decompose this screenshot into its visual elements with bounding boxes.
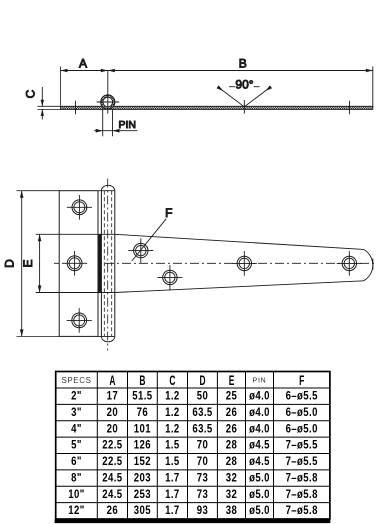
strap bottom edge xyxy=(115,281,364,293)
svg-text:26: 26 xyxy=(107,504,118,517)
svg-text:ø4.0: ø4.0 xyxy=(249,390,270,403)
row 3 inch xyxy=(71,406,318,419)
svg-text:12": 12" xyxy=(68,504,84,517)
column line SPECS/A xyxy=(96,372,98,520)
column line A/B xyxy=(127,372,129,520)
barrel top cap xyxy=(101,185,114,190)
svg-text:A: A xyxy=(79,57,87,71)
svg-text:ø4.0: ø4.0 xyxy=(249,406,270,419)
horizontal centerline xyxy=(54,262,377,264)
row 5 inch xyxy=(71,439,318,452)
row line 2 xyxy=(56,420,330,422)
hole P1 (plate top) xyxy=(67,195,92,220)
svg-text:22.5: 22.5 xyxy=(102,439,122,452)
row 4 inch xyxy=(71,422,318,435)
row 10 inch xyxy=(68,488,318,501)
svg-text:70: 70 xyxy=(197,455,208,468)
svg-text:101: 101 xyxy=(134,422,151,435)
svg-text:93: 93 xyxy=(197,504,208,517)
hole S3 (strap center) xyxy=(232,251,257,276)
svg-text:7–ø5.8: 7–ø5.8 xyxy=(286,504,318,517)
dimension B line with arrows xyxy=(108,69,373,73)
svg-text:F: F xyxy=(165,206,172,220)
column line B/C xyxy=(156,372,158,520)
svg-text:90°: 90° xyxy=(235,77,253,91)
row 8 inch xyxy=(71,472,318,485)
pin inner circle xyxy=(103,97,113,107)
dimension D line with arrows xyxy=(20,191,24,337)
svg-text:63.5: 63.5 xyxy=(192,422,212,435)
barrel bottom cap xyxy=(101,336,114,341)
svg-text:PIN: PIN xyxy=(252,378,266,385)
hole center tick (left leaf, side view) xyxy=(75,101,77,115)
dimension C xyxy=(41,87,44,120)
svg-text:ø5.0: ø5.0 xyxy=(249,472,270,485)
svg-text:ø4.5: ø4.5 xyxy=(249,455,270,468)
row line 1 xyxy=(56,403,330,405)
strap tip center tick xyxy=(372,259,374,270)
svg-text:76: 76 xyxy=(137,406,148,419)
knuckle bottom line / E extension xyxy=(36,292,115,294)
svg-text:ø5.0: ø5.0 xyxy=(249,488,270,501)
svg-text:152: 152 xyxy=(134,455,151,468)
svg-text:5": 5" xyxy=(71,439,82,452)
svg-text:D: D xyxy=(199,374,205,389)
svg-text:24.5: 24.5 xyxy=(102,472,122,485)
svg-text:26: 26 xyxy=(226,406,237,419)
pin centerline vertical xyxy=(107,71,109,114)
svg-text:2": 2" xyxy=(71,390,82,403)
svg-text:50: 50 xyxy=(197,390,208,403)
svg-text:22.5: 22.5 xyxy=(102,455,122,468)
svg-text:F: F xyxy=(299,374,304,389)
svg-text:6": 6" xyxy=(71,455,82,468)
svg-text:1.2: 1.2 xyxy=(165,406,180,419)
table bottom heavy bar xyxy=(55,519,331,523)
row line header xyxy=(56,387,330,389)
svg-text:70: 70 xyxy=(197,439,208,452)
row line 3 xyxy=(56,436,330,438)
svg-text:28: 28 xyxy=(226,455,237,468)
row line 6 xyxy=(56,485,330,487)
svg-text:6–ø5.5: 6–ø5.5 xyxy=(286,390,318,403)
svg-text:ø4.0: ø4.0 xyxy=(249,422,270,435)
svg-text:73: 73 xyxy=(197,472,208,485)
row line 4 xyxy=(56,453,330,455)
svg-text:38: 38 xyxy=(226,504,237,517)
barrel sides xyxy=(100,191,102,337)
column line D/E xyxy=(216,372,218,520)
leaf strip (hatched cross-section) xyxy=(61,106,373,109)
PIN dimension line with arrows xyxy=(94,129,137,133)
svg-text:1.5: 1.5 xyxy=(165,455,180,468)
pin barrel outer circle xyxy=(101,95,115,109)
column line C/D xyxy=(187,372,189,520)
row line 5 xyxy=(56,469,330,471)
hole center tick (strap end, side view) xyxy=(349,101,351,115)
row 2 inch xyxy=(71,390,318,403)
90 degree angle annotation xyxy=(217,85,273,106)
svg-text:253: 253 xyxy=(134,488,151,501)
svg-text:20: 20 xyxy=(107,422,118,435)
svg-text:ø5.0: ø5.0 xyxy=(249,504,270,517)
column line PIN/F xyxy=(273,372,275,520)
label F leader line xyxy=(132,219,166,261)
svg-text:24.5: 24.5 xyxy=(102,488,122,501)
svg-text:7–ø5.8: 7–ø5.8 xyxy=(286,472,318,485)
svg-text:63.5: 63.5 xyxy=(192,406,212,419)
row 12 inch xyxy=(68,504,318,517)
hole P3 (plate bottom) xyxy=(67,308,92,333)
svg-text:7–ø5.8: 7–ø5.8 xyxy=(286,488,318,501)
dimension A line with arrows xyxy=(61,69,108,73)
pin crosshair horizontal xyxy=(97,101,120,103)
svg-text:1.7: 1.7 xyxy=(165,504,180,517)
svg-text:SPECS: SPECS xyxy=(61,376,91,385)
hole P2 (plate middle) xyxy=(62,251,87,276)
svg-text:8": 8" xyxy=(71,472,82,485)
plate top edge across barrel xyxy=(98,190,115,192)
svg-text:4": 4" xyxy=(71,422,82,435)
knuckle top line / E extension xyxy=(36,233,115,235)
svg-text:D: D xyxy=(3,259,17,268)
svg-text:1.7: 1.7 xyxy=(165,488,180,501)
svg-text:28: 28 xyxy=(226,439,237,452)
svg-text:203: 203 xyxy=(134,472,151,485)
svg-text:1.2: 1.2 xyxy=(165,422,180,435)
svg-text:A: A xyxy=(109,374,116,389)
svg-text:73: 73 xyxy=(197,488,208,501)
svg-text:B: B xyxy=(139,374,145,389)
svg-text:ø4.5: ø4.5 xyxy=(249,439,270,452)
svg-text:305: 305 xyxy=(134,504,151,517)
svg-text:3": 3" xyxy=(71,406,82,419)
strap rounded tip xyxy=(364,249,373,280)
svg-text:C: C xyxy=(24,89,38,98)
svg-text:E: E xyxy=(229,374,235,389)
svg-text:10": 10" xyxy=(68,488,84,501)
C extension lines xyxy=(38,106,61,109)
dimension B right extension line xyxy=(372,67,374,108)
hole S2 (strap lower) xyxy=(157,265,182,290)
hole center tick (90-deg vertex, side view) xyxy=(243,100,245,114)
svg-text:7–ø5.5: 7–ø5.5 xyxy=(286,439,318,452)
svg-text:7–ø5.5: 7–ø5.5 xyxy=(286,455,318,468)
svg-text:26: 26 xyxy=(226,422,237,435)
hole S4 (strap end) xyxy=(337,251,362,276)
knuckle edge thick bar xyxy=(98,234,101,292)
hole S1 (strap upper) xyxy=(128,238,153,263)
svg-text:32: 32 xyxy=(226,488,237,501)
left leaf plate xyxy=(59,191,98,337)
svg-text:C: C xyxy=(169,374,176,389)
table data rows xyxy=(68,390,318,518)
row 6 inch xyxy=(71,455,318,468)
PIN dimension extension lines xyxy=(103,110,113,137)
svg-text:1.7: 1.7 xyxy=(165,472,180,485)
barrel vertical centerline xyxy=(107,179,109,351)
table header texts xyxy=(61,374,304,389)
svg-text:6–ø5.0: 6–ø5.0 xyxy=(286,406,318,419)
strap top edge xyxy=(115,234,364,249)
svg-text:20: 20 xyxy=(107,406,118,419)
svg-text:25: 25 xyxy=(226,390,237,403)
svg-text:6–ø5.0: 6–ø5.0 xyxy=(286,422,318,435)
column line E/PIN xyxy=(245,372,247,520)
svg-text:PIN: PIN xyxy=(119,119,137,131)
barrel hidden lines xyxy=(103,191,105,337)
pin barrel hatched ring xyxy=(101,95,115,109)
svg-text:1.5: 1.5 xyxy=(165,439,180,452)
table outer border xyxy=(56,372,330,520)
svg-text:1.2: 1.2 xyxy=(165,390,180,403)
svg-text:E: E xyxy=(21,259,35,267)
D extension lines xyxy=(17,190,60,192)
svg-text:51.5: 51.5 xyxy=(132,390,152,403)
dimension A extension line xyxy=(60,67,62,106)
svg-text:B: B xyxy=(239,57,247,71)
svg-text:32: 32 xyxy=(226,472,237,485)
row line 7 xyxy=(56,502,330,504)
plate bottom edge across barrel xyxy=(98,335,115,337)
svg-text:17: 17 xyxy=(107,390,118,403)
svg-text:126: 126 xyxy=(134,439,151,452)
dimension E line with arrows xyxy=(38,234,42,292)
